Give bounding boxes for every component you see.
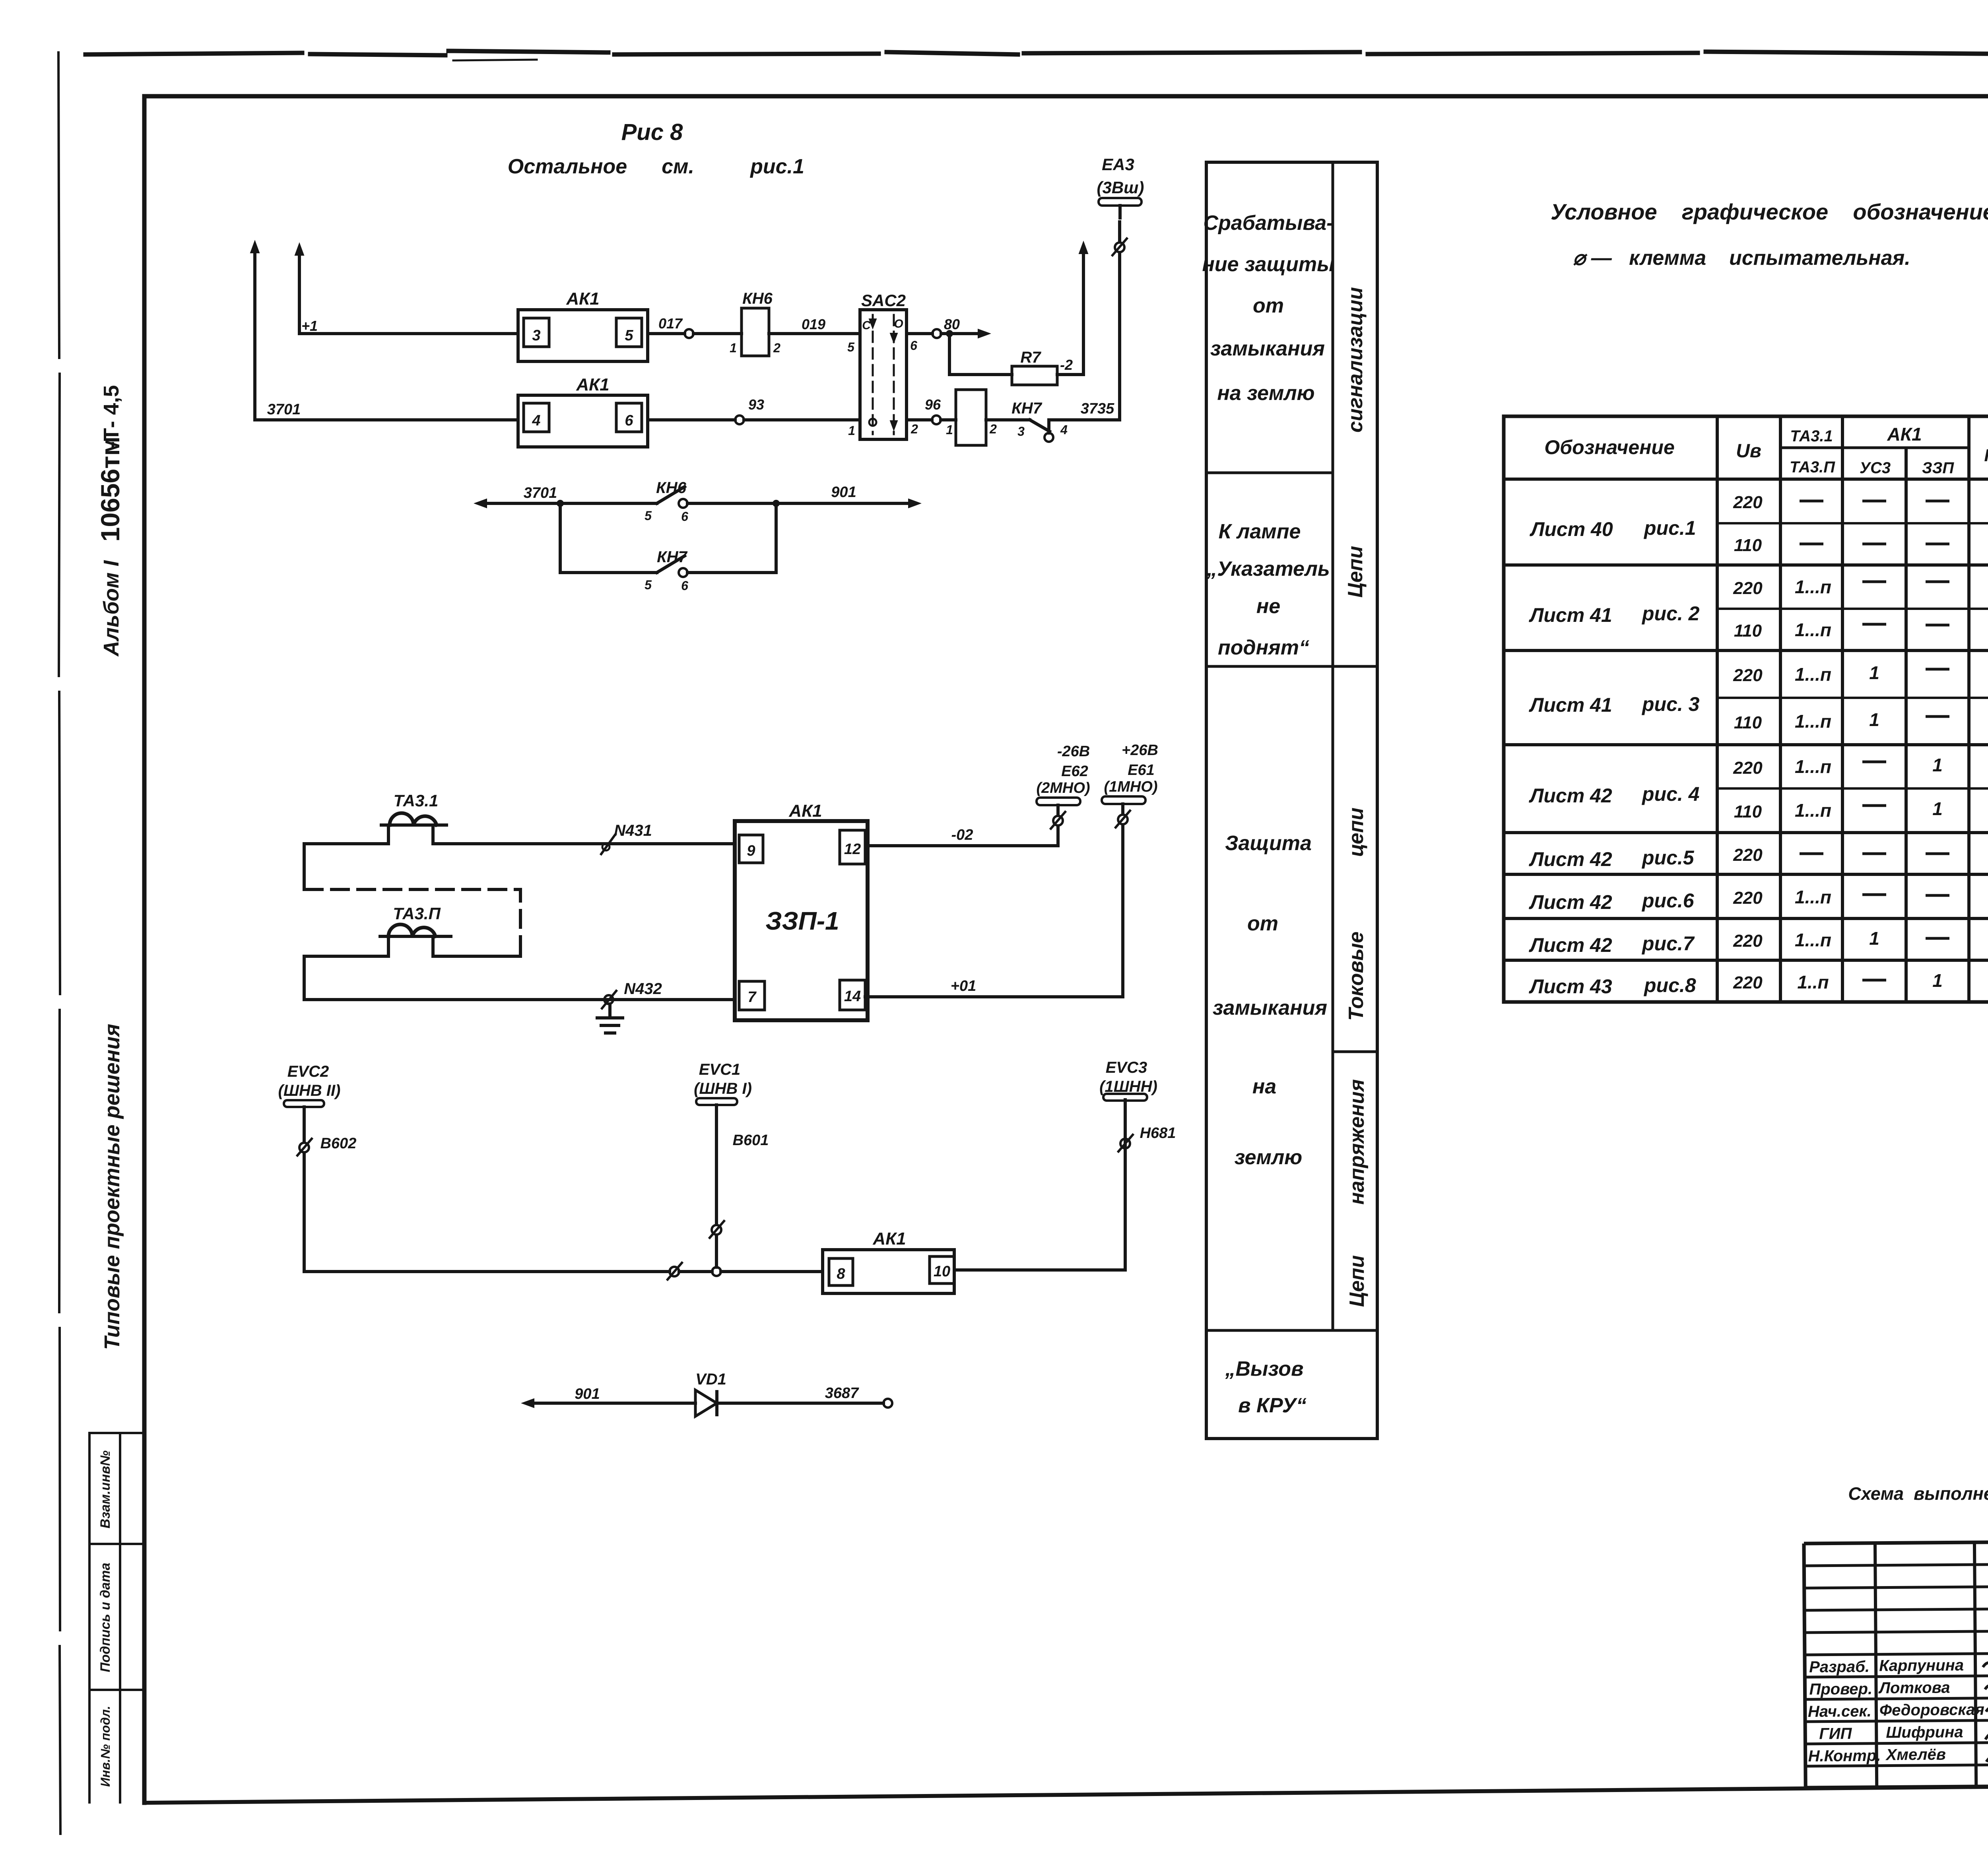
svg-text:ТА3.П: ТА3.П	[1790, 458, 1835, 476]
svg-text:замыкания: замыкания	[1210, 337, 1325, 360]
svg-text:Токовые: Токовые	[1345, 932, 1368, 1021]
svg-text:Лист 42: Лист 42	[1529, 784, 1612, 807]
svg-text:+1: +1	[301, 318, 318, 334]
svg-text:ГИП: ГИП	[1819, 1725, 1852, 1743]
node: terminal circle on wire 96	[932, 416, 941, 424]
svg-text:-Т- 4,5: -Т- 4,5	[99, 385, 123, 448]
switch SAC2	[847, 291, 918, 439]
svg-text:1: 1	[1869, 709, 1879, 730]
svg-text:14: 14	[844, 988, 861, 1005]
svg-text:рис.8: рис.8	[1643, 974, 1696, 996]
svg-text:5: 5	[645, 509, 652, 523]
svg-text:ние защиты: ние защиты	[1202, 253, 1334, 276]
node: test clamp on В602	[297, 1139, 312, 1155]
terminal EVC2 (ШНВ II)	[278, 1063, 341, 1107]
svg-text:ТА3.1: ТА3.1	[1790, 427, 1833, 445]
svg-text:О: О	[894, 317, 903, 330]
svg-text:5: 5	[645, 578, 652, 592]
node: test clamp on EA3 riser	[1112, 239, 1127, 255]
node: test clamp on bus	[668, 1263, 682, 1280]
svg-text:Е61: Е61	[1128, 762, 1155, 779]
svg-text:2: 2	[911, 422, 918, 436]
svg-text:4: 4	[1060, 423, 1068, 437]
svg-text:АК1: АК1	[576, 375, 609, 394]
svg-text:Uв: Uв	[1736, 441, 1761, 462]
diode VD1	[695, 1371, 726, 1416]
svg-text:(3Вш): (3Вш)	[1097, 178, 1144, 197]
svg-text:3: 3	[1017, 424, 1025, 439]
svg-text:220: 220	[1733, 931, 1763, 951]
svg-text:901: 901	[575, 1386, 600, 1402]
svg-text:ТА3.1: ТА3.1	[394, 791, 439, 810]
svg-text:от: от	[1247, 912, 1278, 935]
node: terminal circle on wire 80	[932, 329, 941, 338]
table: row designations	[1529, 517, 1700, 998]
svg-text:1...п: 1...п	[1795, 664, 1831, 685]
svg-text:110: 110	[1734, 802, 1762, 821]
svg-text:1...п: 1...п	[1795, 619, 1831, 640]
node: junction dot	[557, 500, 564, 507]
svg-text:КН6: КН6	[742, 290, 773, 307]
wire N431: TA3.1 to ЗЗП-1 pin9	[304, 822, 734, 889]
terminal E61 (1МНО)	[1102, 742, 1158, 814]
svg-text:SAC2: SAC2	[861, 291, 906, 310]
svg-text:Обозначение: Обозначение	[1544, 436, 1675, 458]
relay ЗЗП-1 (AK1)	[735, 801, 868, 1020]
svg-text:2: 2	[989, 422, 997, 436]
svg-text:10656тм: 10656тм	[95, 437, 125, 542]
wire: KH7 parallel branch	[560, 503, 657, 573]
node: arrowhead left	[475, 499, 487, 508]
svg-text:3687: 3687	[825, 1385, 859, 1402]
svg-text:EVC1: EVC1	[699, 1061, 741, 1078]
svg-text:Типовые проектные решения: Типовые проектные решения	[100, 1024, 124, 1350]
svg-text:Лоткова: Лоткова	[1878, 1679, 1950, 1697]
switch contact KH6 (pins 5-6)	[645, 479, 688, 524]
svg-text:N431: N431	[614, 822, 652, 839]
current transformer TA3.П	[380, 904, 451, 936]
svg-text:1: 1	[1932, 755, 1943, 775]
svg-text:1...п: 1...п	[1795, 887, 1831, 907]
svg-text:019: 019	[802, 316, 825, 332]
svg-text:сигнализации: сигнализации	[1344, 287, 1367, 433]
svg-text:АК1: АК1	[1887, 424, 1922, 445]
svg-text:рис.6: рис.6	[1641, 889, 1695, 912]
svg-text:+26В: +26В	[1122, 742, 1158, 759]
svg-text:+01: +01	[951, 978, 976, 994]
svg-text:1..п: 1..п	[1797, 972, 1829, 992]
svg-text:рис.1: рис.1	[749, 155, 804, 178]
svg-text:⌀ — клемма испытательная.: ⌀ — клемма испытательная.	[1573, 247, 1910, 270]
svg-text:на: на	[1252, 1075, 1276, 1098]
wire В601: EVC1 down	[716, 1105, 769, 1267]
svg-text:Схема выполнена на листах 4: Схема выполнена на листах 40,41,42,43,44	[1848, 1483, 1988, 1504]
svg-text:Цепи: Цепи	[1344, 546, 1367, 598]
svg-text:Шифрина: Шифрина	[1886, 1723, 1963, 1741]
svg-text:5: 5	[847, 340, 855, 354]
node: test clamp on -02	[1051, 812, 1065, 829]
svg-text:-02: -02	[951, 827, 973, 843]
svg-text:1...п: 1...п	[1795, 577, 1831, 597]
svg-text:„Вызов: „Вызов	[1225, 1357, 1304, 1381]
table: title block texts	[1807, 1656, 1985, 1765]
svg-text:рис.1: рис.1	[1643, 517, 1696, 539]
wire 019: KH6 to SAC2	[769, 316, 860, 334]
svg-text:ТА3.П: ТА3.П	[393, 904, 441, 923]
svg-text:6: 6	[910, 338, 917, 353]
svg-text:Лист 41: Лист 41	[1529, 604, 1612, 626]
wire 901: to diode VD1	[527, 1386, 695, 1403]
relay coil KH7	[946, 390, 997, 445]
wire: TA3.П loop	[304, 936, 520, 1000]
wire: contact KH7 back to node	[687, 503, 776, 573]
wire 3735: KH7 contact to EA3	[1049, 400, 1120, 433]
svg-text:не: не	[1256, 595, 1280, 618]
svg-text:рис. 3: рис. 3	[1641, 693, 1700, 715]
svg-text:ЗЗП-1: ЗЗП-1	[765, 907, 839, 935]
wire 3701: contact row with left arrow	[480, 485, 657, 503]
svg-text:80: 80	[944, 316, 960, 332]
svg-text:3701: 3701	[267, 401, 301, 418]
svg-text:Карпунина: Карпунина	[1879, 1656, 1964, 1674]
svg-text:напряжения: напряжения	[1345, 1079, 1369, 1204]
svg-text:Условное графическое обо: Условное графическое обозначение, отсутс…	[1551, 199, 1988, 224]
node: test clamp on Н681	[1118, 1135, 1133, 1151]
svg-text:Защита: Защита	[1225, 832, 1312, 855]
table: "1" values	[1795, 573, 1988, 992]
svg-text:цепи: цепи	[1345, 808, 1368, 857]
svg-text:220: 220	[1733, 579, 1763, 598]
svg-text:поднят“: поднят“	[1218, 636, 1309, 659]
svg-text:EVC3: EVC3	[1106, 1059, 1147, 1076]
svg-text:220: 220	[1733, 845, 1763, 865]
svg-text:110: 110	[1734, 713, 1762, 732]
table: header labels	[1544, 424, 1988, 477]
svg-text:1...п: 1...п	[1795, 930, 1831, 950]
svg-text:рис.5: рис.5	[1641, 847, 1695, 869]
svg-text:Лист 42: Лист 42	[1529, 934, 1612, 956]
svg-text:Провер.: Провер.	[1809, 1680, 1872, 1698]
svg-text:5: 5	[625, 327, 633, 344]
svg-text:АК1: АК1	[872, 1229, 906, 1248]
node: terminal circle on wire 017	[685, 329, 693, 338]
svg-text:Лист 43: Лист 43	[1529, 975, 1612, 998]
node: arrowhead left	[522, 1399, 534, 1408]
wire 93: AK1 pin6 to SAC2	[648, 396, 860, 420]
wire: bus riser left (to 3701)	[253, 246, 256, 420]
note: legend text	[1551, 199, 1988, 1504]
svg-text:6: 6	[625, 412, 633, 429]
svg-text:Лист 41: Лист 41	[1529, 694, 1612, 716]
node: test clamp on В601	[710, 1221, 724, 1238]
wire 017: AK1 pin5 to KH6	[648, 315, 742, 334]
wire 80: SAC2 pin6 out	[907, 316, 985, 334]
svg-text:Федоровская: Федоровская	[1879, 1701, 1984, 1719]
svg-text:Взам.инв№: Взам.инв№	[98, 1450, 113, 1528]
wire: dashed polarity link	[305, 889, 520, 954]
svg-text:93: 93	[748, 396, 764, 413]
svg-text:3: 3	[532, 327, 540, 344]
table: Uв values	[1733, 493, 1763, 992]
node -2 label	[1060, 357, 1073, 373]
table: title block grid	[1804, 1538, 1988, 1788]
svg-text:1: 1	[1932, 798, 1943, 819]
svg-text:УС3: УС3	[1860, 459, 1891, 477]
wire +01: pin14 to E61	[865, 826, 1123, 997]
terminal EVC3 (1ШНН)	[1099, 1059, 1176, 1142]
svg-text:110: 110	[1734, 621, 1762, 641]
svg-text:Разраб.: Разраб.	[1809, 1658, 1870, 1676]
svg-text:Цепи: Цепи	[1345, 1255, 1369, 1307]
svg-text:N432: N432	[624, 980, 662, 998]
svg-text:220: 220	[1733, 666, 1763, 685]
node: arrowhead right (wire 80)	[978, 329, 990, 338]
node: arrowhead right	[909, 499, 920, 508]
svg-text:1: 1	[848, 423, 855, 438]
relay coil KH6	[730, 290, 780, 356]
svg-text:АК1: АК1	[566, 289, 599, 309]
svg-text:от: от	[1253, 294, 1284, 317]
table: dash marks	[1800, 501, 1988, 981]
node: junction dot	[773, 500, 780, 507]
svg-text:7: 7	[747, 989, 757, 1006]
svg-text:в КРУ“: в КРУ“	[1238, 1394, 1307, 1417]
wire -02: pin12 to E62	[868, 827, 1058, 846]
wire В602: EVC2 down	[304, 1107, 356, 1272]
svg-text:220: 220	[1733, 888, 1763, 908]
svg-text:1: 1	[730, 341, 737, 355]
svg-text:рис.7: рис.7	[1641, 932, 1695, 955]
svg-text:ЗЗП: ЗЗП	[1922, 459, 1954, 477]
svg-text:12: 12	[844, 841, 861, 858]
node: test clamp on +01	[1116, 811, 1130, 827]
svg-text:1...п: 1...п	[1795, 800, 1831, 821]
svg-text:9: 9	[747, 843, 755, 859]
svg-text:В602: В602	[320, 1135, 357, 1152]
svg-text:3701: 3701	[524, 485, 557, 501]
resistor R7	[1012, 349, 1057, 385]
wire: EA3 riser	[1118, 222, 1121, 420]
node: arrowhead up	[1079, 242, 1088, 254]
svg-text:С: С	[862, 319, 871, 332]
svg-text:Лист 42: Лист 42	[1529, 891, 1612, 913]
terminal EVC1 (ШНВ I)	[694, 1061, 752, 1105]
svg-text:110: 110	[1734, 536, 1762, 555]
svg-text:3735: 3735	[1081, 400, 1114, 417]
svg-text:КН7: КН7	[1984, 446, 1988, 465]
svg-text:Остальное: Остальное	[508, 155, 627, 178]
wire: +1 to AK1 pin3	[299, 332, 518, 335]
svg-text:КН6: КН6	[656, 479, 686, 497]
svg-text:(ШНВ II): (ШНВ II)	[278, 1082, 341, 1099]
svg-text:017: 017	[658, 315, 683, 332]
contact block AK1 (pins 3-5)	[518, 289, 648, 361]
table: circuit purpose column	[1206, 162, 1377, 1439]
wire: bus riser right (+1)	[298, 248, 301, 334]
svg-text:ЕА3: ЕА3	[1102, 155, 1134, 174]
svg-text:1: 1	[1869, 662, 1879, 683]
wire: branch down to R7	[949, 334, 1012, 375]
svg-text:-2: -2	[1060, 357, 1073, 373]
svg-text:Н.Контр.: Н.Контр.	[1808, 1747, 1881, 1765]
svg-text:1: 1	[1932, 970, 1943, 991]
node: test clamp on N432	[602, 991, 616, 1008]
wire: R7 to riser up	[1057, 247, 1083, 375]
svg-text:Инв.№ подл.: Инв.№ подл.	[98, 1706, 113, 1787]
svg-text:АК1: АК1	[788, 801, 822, 821]
svg-text:1...п: 1...п	[1795, 756, 1831, 777]
svg-text:Лист 42: Лист 42	[1529, 848, 1612, 870]
svg-text:рис. 4: рис. 4	[1641, 783, 1699, 805]
svg-text:В601: В601	[733, 1132, 769, 1149]
svg-text:Нач.сек.: Нач.сек.	[1808, 1703, 1872, 1720]
svg-text:(ШНВ I): (ШНВ I)	[694, 1080, 752, 1097]
node: terminal circle 3687	[883, 1399, 892, 1408]
svg-text:R7: R7	[1020, 349, 1041, 366]
wire N432: to ЗЗП-1 pin7	[304, 980, 734, 1000]
table: Таблица исполнений grid	[1504, 416, 1988, 1002]
node +1 label	[301, 318, 318, 334]
node: signatures	[1983, 1662, 1988, 1777]
heading Рис 8	[508, 119, 804, 178]
wire: voltage bus to AK1 pin8	[304, 1270, 823, 1273]
svg-text:(2МНО): (2МНО)	[1036, 780, 1090, 796]
svg-text:К лампе: К лампе	[1219, 520, 1301, 543]
node: junction dot at R7 branch	[946, 330, 953, 337]
current transformer TA3.1	[381, 791, 447, 825]
terminal EA3 (3Вш)	[1097, 155, 1144, 218]
wire 96: SAC2 pin2 to KH7 coil	[907, 396, 956, 420]
switch contact KH7 (pins 5-6)	[645, 548, 688, 593]
wire 901: KH6 contact to right arrow	[687, 484, 916, 503]
svg-text:96: 96	[925, 396, 941, 413]
svg-text:EVC2: EVC2	[287, 1063, 329, 1080]
svg-text:Рис 8: Рис 8	[621, 119, 683, 145]
svg-text:Лист 40: Лист 40	[1530, 518, 1613, 540]
svg-text:6: 6	[681, 579, 688, 593]
contact block AK1 (pins 4-6)	[518, 375, 648, 447]
node: junction circle EVC1	[712, 1267, 721, 1276]
svg-text:на землю: на землю	[1217, 382, 1314, 405]
svg-text:КН7: КН7	[657, 548, 687, 566]
node: arrowhead up	[295, 243, 304, 255]
svg-text:1...п: 1...п	[1795, 711, 1831, 732]
svg-text:см.: см.	[662, 155, 694, 178]
svg-text:VD1: VD1	[695, 1371, 726, 1388]
svg-text:Срабатыва-: Срабатыва-	[1204, 212, 1334, 235]
svg-text:рис. 2: рис. 2	[1641, 602, 1700, 625]
wire 3687: diode to terminal	[717, 1385, 883, 1403]
wire: AK1 pin10 to EVC3	[954, 1100, 1125, 1270]
svg-text:Хмелёв: Хмелёв	[1885, 1746, 1946, 1764]
svg-text:(1МНО): (1МНО)	[1104, 779, 1157, 795]
svg-text:Н681: Н681	[1140, 1125, 1176, 1142]
svg-text:Е62: Е62	[1061, 763, 1088, 780]
node: terminal circle on wire 93	[735, 416, 744, 424]
svg-text:1: 1	[946, 423, 953, 437]
wire 3701: riser to AK1 pin4	[255, 401, 518, 420]
svg-text:-26В: -26В	[1057, 743, 1090, 760]
switch contact KH7 (pins 3-4)	[986, 400, 1068, 442]
svg-text:Подпись и дата: Подпись и дата	[98, 1563, 113, 1672]
svg-text:Альбом I: Альбом I	[99, 560, 123, 657]
svg-text:901: 901	[831, 484, 856, 501]
svg-text:220: 220	[1733, 973, 1763, 992]
contact block AK1 (pins 8-10)	[823, 1229, 954, 1293]
svg-text:замыкания: замыкания	[1213, 996, 1327, 1019]
svg-text:2: 2	[773, 341, 780, 355]
node: arrowhead up	[250, 241, 259, 253]
terminal E62 (2МНО)	[1036, 743, 1090, 815]
svg-text:4: 4	[532, 412, 540, 429]
svg-text:220: 220	[1733, 758, 1763, 778]
ground	[597, 1004, 623, 1033]
margin rotated labels	[95, 385, 125, 1786]
svg-text:6: 6	[681, 509, 688, 524]
svg-text:10: 10	[934, 1263, 950, 1280]
svg-text:8: 8	[837, 1266, 845, 1282]
svg-text:220: 220	[1733, 493, 1763, 512]
node: break slash on N431	[601, 834, 615, 854]
svg-text:1: 1	[1869, 928, 1879, 949]
svg-text:„Указатель: „Указатель	[1206, 557, 1330, 581]
svg-text:КН7: КН7	[1011, 400, 1042, 417]
svg-text:землю: землю	[1235, 1146, 1303, 1169]
